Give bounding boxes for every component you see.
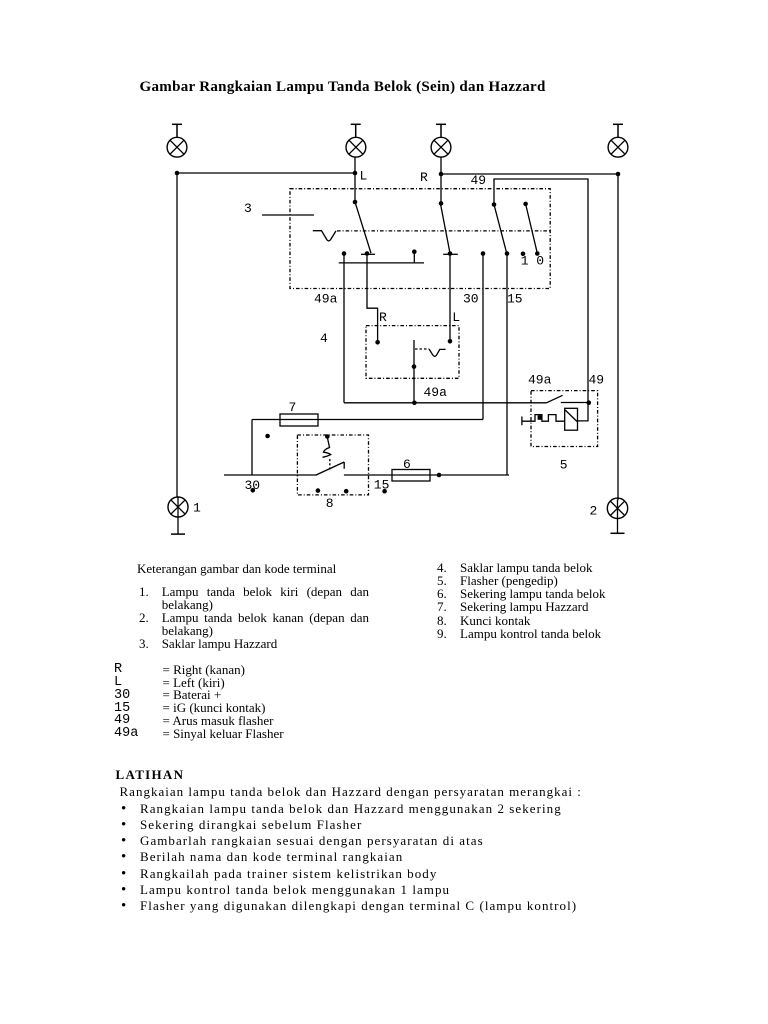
box4 pole wire <box>413 340 415 403</box>
contact dot 49a-1 <box>342 251 347 256</box>
node junction dot lamp2 bus <box>616 172 621 177</box>
svg-text:1: 1 <box>193 501 201 516</box>
svg-text:15: 15 <box>507 292 523 307</box>
svg-text:6: 6 <box>403 457 411 472</box>
flasher contact arm <box>547 395 590 403</box>
svg-text:3: 3 <box>244 201 252 216</box>
node box8 bottom dot right <box>344 489 349 494</box>
title <box>140 80 546 95</box>
svg-text:7: 7 <box>289 400 297 415</box>
wire 15 drop <box>506 254 508 476</box>
bullet list <box>121 801 577 914</box>
wire contact to box4 R input <box>367 254 378 343</box>
hazard actuator wave symbol <box>313 231 336 241</box>
svg-text:49a: 49a <box>528 373 552 388</box>
wire 30 drop <box>482 254 484 420</box>
node box4 pole dot <box>412 364 417 369</box>
svg-text:1 0: 1 0 <box>521 253 544 268</box>
node junction dot R lamp bus <box>439 172 444 177</box>
wire contact to box4 L input <box>449 254 451 342</box>
node junction dot lamp1 bus <box>175 171 180 176</box>
lamp 1 bottom-left (rear-left turn lamp) <box>168 497 188 534</box>
wire lamp1 drop (left long vertical) <box>176 173 178 498</box>
switch arm 3 (49 pole) <box>492 202 507 253</box>
box4 actuator wave <box>429 349 446 356</box>
wire L lamp to switch pivot <box>354 157 356 202</box>
flasher coil wire <box>578 403 589 421</box>
node dot after fuse6 <box>437 473 442 478</box>
svg-text:30: 30 <box>463 292 479 307</box>
contact dot under R arm <box>448 251 453 256</box>
svg-text:2: 2 <box>590 504 598 519</box>
svg-text:49: 49 <box>589 373 605 388</box>
node flasher 49 dot <box>587 400 592 405</box>
lamp L1 top-left (front-left turn lamp) <box>167 124 187 157</box>
wire 49a contact drop <box>343 254 345 403</box>
legend terminal codes <box>114 664 284 741</box>
lamp R (right indicator lamp) <box>431 124 451 157</box>
svg-text:49a: 49a <box>424 385 448 400</box>
svg-text:L: L <box>360 169 368 184</box>
svg-text:5: 5 <box>560 458 568 473</box>
wire battery bus left <box>224 474 316 476</box>
node dot below 15 <box>382 489 387 494</box>
contact dot 30 <box>481 251 486 256</box>
box4 actuator dashed link <box>415 348 429 350</box>
wire battery bus right <box>344 474 509 476</box>
switch arm 1 (L pole) <box>353 200 375 255</box>
switch arm 2 (R pole) <box>439 201 458 254</box>
right numbered list 4-9 <box>437 561 606 640</box>
lamp 2 bottom-right (rear-right turn lamp) <box>607 498 627 533</box>
wire 49a bus <box>339 262 424 264</box>
node stray dot above box8 <box>265 434 270 439</box>
node R terminal box4 <box>375 340 380 345</box>
node box8 bottom dot left <box>316 488 321 493</box>
fuse F6 (sekering tanda belok) <box>392 470 430 482</box>
node 49a junction <box>412 401 417 406</box>
hazard switch box 3 (dash-dot) <box>290 189 550 289</box>
wire lamp2 drop (right long vertical) <box>617 174 619 500</box>
contact dot with stem <box>412 249 417 263</box>
node dot below 30 <box>251 488 256 493</box>
flasher box 5 (dash-dot) <box>531 391 598 447</box>
node L terminal box4 <box>448 339 453 344</box>
svg-text:L: L <box>452 310 460 325</box>
svg-text:4: 4 <box>320 331 328 346</box>
wire fuse7 left drop <box>251 420 253 476</box>
wire 49a horizontal to flasher <box>344 402 547 404</box>
contact dot pos0 <box>535 251 540 256</box>
flasher bimetal element <box>522 415 565 426</box>
svg-text:R: R <box>420 170 428 185</box>
ignition key box 8 (dash-dot) <box>297 435 368 495</box>
svg-text:8: 8 <box>326 496 334 511</box>
wire 49 feed <box>494 179 588 403</box>
wire R lamp to switch pivot <box>440 157 442 203</box>
box8 switch arm <box>316 462 344 475</box>
hazard mechanical coupling line <box>337 230 550 232</box>
contact dot 15 <box>505 251 510 256</box>
contact dot pos1 <box>521 252 526 257</box>
pointer line for label 3 <box>262 214 314 216</box>
flasher coil (relay) <box>565 408 578 430</box>
left numbered list 1-3 <box>139 586 369 650</box>
fuse F7 (sekering hazzard) <box>252 414 483 426</box>
svg-text:49: 49 <box>471 173 487 188</box>
svg-text:49a: 49a <box>314 292 338 307</box>
svg-text:R: R <box>379 310 387 325</box>
node junction dot L lamp bus <box>353 171 358 176</box>
keterangan heading <box>137 562 336 575</box>
lamp top-right <box>608 124 628 157</box>
circuit schematic <box>0 0 768 548</box>
wire left lamp bus <box>177 172 355 174</box>
lamp L (left indicator lamp) <box>346 124 366 157</box>
wire right lamp bus <box>441 173 618 175</box>
switch arm 4 (pilot pole) <box>523 202 537 254</box>
latihan heading <box>116 768 185 781</box>
box8 key actuator <box>323 434 331 469</box>
contact dot 49a-2 <box>365 251 370 256</box>
svg-text:15: 15 <box>374 478 390 493</box>
turn signal switch box 4 (dash-dot) <box>366 326 459 379</box>
